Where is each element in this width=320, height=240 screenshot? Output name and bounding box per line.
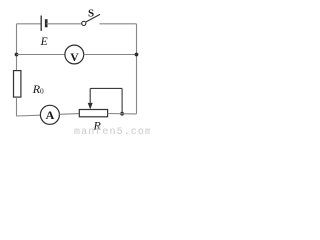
svg-text:V: V xyxy=(70,51,79,64)
wire wiper vertical xyxy=(121,88,123,113)
rheostat wiper arrow shaft xyxy=(89,88,91,103)
switch S blade xyxy=(86,14,100,22)
svg-text:0: 0 xyxy=(40,86,44,95)
battery E short thick plate xyxy=(45,19,48,27)
wire bottom-left segment xyxy=(17,114,41,117)
svg-text:manfen5.com: manfen5.com xyxy=(74,126,150,136)
wire top-left segment xyxy=(17,23,41,25)
node left voltmeter junction xyxy=(15,53,19,57)
wire ammeter to rheostat xyxy=(59,113,79,116)
ammeter A circle xyxy=(40,105,59,124)
battery E long plate xyxy=(40,16,42,31)
switch S pivot circle xyxy=(82,21,86,25)
voltmeter V circle xyxy=(65,45,84,64)
wire battery to switch xyxy=(46,23,81,25)
rheostat R body xyxy=(79,110,107,117)
node wiper junction xyxy=(120,112,124,116)
rheostat wiper arrowhead xyxy=(88,103,93,110)
svg-text:A: A xyxy=(46,108,55,122)
resistor R0 body xyxy=(14,71,21,98)
wire right vertical xyxy=(136,24,138,114)
node right voltmeter junction xyxy=(135,53,139,57)
wire switch to top-right corner xyxy=(100,23,137,25)
wire voltmeter branch right xyxy=(84,54,137,56)
wire left vertical upper xyxy=(16,24,18,71)
wire wiper horizontal xyxy=(90,87,122,89)
wire voltmeter branch left xyxy=(17,54,66,56)
svg-text:E: E xyxy=(40,36,48,48)
wire rheostat to right corner xyxy=(108,113,137,115)
svg-text:S: S xyxy=(88,8,94,20)
wire left vertical lower xyxy=(16,97,18,116)
